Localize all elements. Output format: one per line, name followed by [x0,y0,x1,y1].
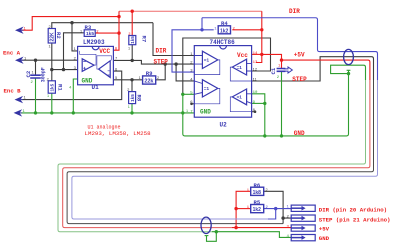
junction dots red [117,10,283,230]
svg-text:22k: 22k [144,79,153,85]
resistor R3 (1k5 horizontal) [84,30,95,37]
svg-text:Vcc: Vcc [237,52,248,59]
wire Enc A to U1 pin2 [22,59,78,61]
svg-text:1k5: 1k5 [50,83,55,91]
svg-text:DIR: DIR [156,48,167,55]
svg-text:2: 2 [49,25,51,29]
wire C1 bottom [281,72,283,136]
wire STEP branch to U2 pin4 [176,64,194,81]
node R7/pin7 [131,59,134,62]
svg-text:1k2: 1k2 [220,28,229,34]
svg-text:1: 1 [49,45,51,49]
node R3.2 joins VCC vertical [117,31,120,34]
node R5 branch [234,207,237,210]
wire R6 pin2 drop [264,191,283,218]
svg-text:=1: =1 [204,86,210,91]
XOR gate C [202,80,217,97]
wire R2 top to DIR corner (net DIR upper run) [52,23,153,29]
extra resistor pin digits [47,46,189,113]
node pin14 junction [260,53,263,56]
svg-text:LM2903: LM2903 [83,39,105,46]
svg-text:1: 1 [24,25,27,30]
svg-text:C1: C1 [270,67,277,74]
wire GND hook at top-right cable marker [331,65,366,80]
wire R8 top drop [131,80,133,92]
svg-text:GND: GND [82,77,93,84]
wire R7 top [131,11,133,35]
wire Enc B to U1 pin6 [22,71,122,100]
svg-text:10: 10 [253,91,258,95]
svg-text:STEP: STEP [292,76,307,83]
junction dots green [34,72,350,234]
svg-text:R6: R6 [254,182,261,189]
node R5.2 / bundle [274,207,277,210]
svg-text:+5V: +5V [294,52,305,59]
svg-text:R4: R4 [221,20,228,27]
cable clamp pin bottom-left [205,235,209,237]
wire R5 pin2 to connector pin1 [264,208,292,210]
svg-text:2: 2 [266,188,268,192]
svg-text:1: 1 [24,55,27,60]
wire U2 pin10 [252,94,265,136]
wire DIR branch down to U2 pin3 [172,30,202,72]
svg-text:U1: U1 [92,84,100,91]
wire U2 pin12 over-the-top loop to pin5 node [183,38,271,94]
wire R9 pin2 riser to STEP [156,64,166,80]
connector J1 pin2 [291,215,315,221]
arrow glyph of C1 [284,67,293,73]
svg-text:STEP: STEP [154,59,169,66]
wire R3 pin1 branch [64,33,85,70]
svg-text:2: 2 [157,76,159,80]
svg-text:R3: R3 [85,24,92,31]
wire C2 bottom [35,78,37,113]
wire node to U1 pin3 [52,69,78,71]
resistor R8 (1k5 vertical) [129,92,136,104]
connector J1 pin3 [291,225,315,231]
node R4.2 joins +5V vertical [260,28,263,31]
node R4.1 / DIR [200,28,203,31]
node arrow net joins VCC vertical [117,15,120,18]
pin number labels U2 left [190,51,193,104]
svg-text:1: 1 [23,108,26,113]
wire R4 pin1 to DIR vertical [202,18,214,30]
wire R1 bottom [51,93,53,113]
node pin5 drop [181,93,184,96]
XOR gate B [232,59,246,75]
svg-text:1: 1 [74,46,77,51]
svg-text:=1: =1 [237,65,243,70]
wire U1 pin7 STEP run to U2 pin2 [113,60,194,64]
svg-text:2: 2 [31,81,34,85]
node pin9 joins pin10 [263,102,266,105]
svg-text:13: 13 [253,61,258,65]
svg-text:2: 2 [127,88,129,92]
resistor R2 (22K vertical) [48,29,56,44]
node EncA/C2 junction [34,59,37,62]
node DIR/pin1 junction [70,21,73,24]
node cable hook bottom-left [215,230,218,233]
svg-text:12: 12 [253,66,258,71]
node C1 branch [280,58,283,61]
resistor R7 (1k5 vertical) [129,36,136,45]
capacitor C1 (with arrow marker) [277,67,293,73]
resistor pin digits [49,25,268,192]
comparator B triangle [99,61,111,78]
svg-text:GND: GND [294,130,305,137]
wire U2 pin11 STEP output loop to connector pin2 [252,57,374,81]
node divider tap [50,68,53,71]
node R6/R5 riser top [235,190,237,192]
node top rail / R7 [131,10,134,13]
resistor R1 (1k5 vertical) [48,81,55,93]
wire U2 pin8 stub [252,111,256,113]
IC U2 74HCT86 [194,46,251,118]
wire riser to R6/R5 [236,191,251,227]
svg-text:LM293, LM358, LM258: LM293, LM358, LM258 [85,130,152,137]
net arrow GND bottom-left [15,111,22,116]
wire U2 pin5 stub [183,93,195,95]
op-amp U1 LM2903 [78,46,114,84]
net arrow Enc A [16,58,23,63]
junction dots black [34,21,285,220]
svg-text:1k5: 1k5 [130,36,135,44]
svg-text:74HCT86: 74HCT86 [210,39,236,46]
svg-text:1: 1 [128,105,130,109]
svg-text:DIR: DIR [289,8,300,15]
XOR gate A [202,51,217,68]
wire branch to R5 pin1 [236,208,251,210]
capacitor C2 (300pF) [30,75,41,78]
svg-text:2: 2 [287,215,290,219]
svg-text:DIR (pin 20 Arduino): DIR (pin 20 Arduino) [319,207,387,214]
gate output routes [194,60,251,112]
node cable hook top-right [347,72,350,75]
svg-text:1: 1 [214,28,217,32]
wire U2 pin9 [252,102,265,104]
net arrow Enc B [16,97,23,102]
resistor R9 (22k horizontal) [143,76,156,85]
wire U2 pin6 stub [191,103,194,105]
unconnected stub blob U2 pin8 [254,110,257,113]
wire R7 bottom drop [131,45,133,61]
svg-text:Enc B: Enc B [4,88,22,95]
svg-text:GND: GND [319,235,330,242]
pin number labels U1 [74,46,118,80]
pin number labels U2 right [253,66,258,112]
node pin10 on lower bus [263,134,266,137]
wire C2 top branch [35,60,37,75]
svg-text:R7: R7 [141,36,148,43]
svg-text:1k5: 1k5 [130,94,135,102]
net arrow top-left (red net) [16,28,23,33]
svg-text:300pF: 300pF [40,67,46,82]
svg-text:VCC: VCC [99,48,110,55]
wire U1 pin5 line [113,79,142,81]
gate =1 labels [204,58,242,100]
svg-text:22K: 22K [50,32,56,42]
svg-text:9: 9 [253,101,256,105]
wire R3 pin2 to VCC node [95,32,119,34]
comparator A triangle [82,59,94,72]
svg-text:GND: GND [200,108,211,115]
wire R4 pin2 to +5V vertical [232,29,261,31]
svg-text:1: 1 [80,30,82,34]
connector J1 pin4 [291,235,315,241]
svg-text:U2: U2 [220,122,228,129]
resistor R4 (1k2 horizontal) [218,26,230,35]
node U1 pin4 on bus [72,111,75,114]
cable clamp pin top-right [347,70,351,73]
wire DIR net top run and right loop to R5 node [202,18,378,80]
wire GND left bus [21,112,195,114]
svg-text:=1: =1 [237,95,243,100]
svg-text:1k5: 1k5 [86,31,94,37]
XOR gate D [232,89,246,105]
wire U2 pin14 +5V [252,53,262,55]
junction dots blue [200,28,277,210]
svg-text:Enc A: Enc A [3,49,21,56]
svg-text:14: 14 [253,52,258,56]
gate input stubs [194,56,251,104]
svg-text:1k8: 1k8 [253,190,262,196]
svg-text:R5: R5 [254,199,261,206]
internal output routes U1 [80,51,96,65]
connector J1 pin1 [291,205,315,211]
wire +5V rail to right loop, around to connector pin3 [262,54,311,60]
cable marker ellipse bottom-left [201,217,211,233]
svg-text:1: 1 [139,76,141,80]
node C1 on lower bus [280,134,283,137]
svg-text:2: 2 [277,76,280,80]
svg-text:R2: R2 [55,32,62,39]
wire GND drop to lower bus [183,74,349,136]
svg-text:+5V: +5V [319,226,330,233]
unconnected stub blob U2 pin6 [190,103,193,106]
node R8 on bus [130,111,133,114]
node C2 on bus [34,111,37,114]
wire VCC vertical to U1 pin8 [113,11,119,50]
svg-text:1: 1 [24,95,27,100]
resistor R6 (1k8 horizontal) [251,187,264,196]
svg-text:2: 2 [47,77,49,81]
wire divider R2-R1 vertical [51,43,53,81]
svg-text:1: 1 [47,94,49,98]
cable marker ellipse top-right [344,49,354,64]
node pin4 branch on STEP [174,62,177,65]
node R1 on bus [50,111,53,114]
wire +5V top rail [119,10,262,12]
wire DIR vertical drop to U2 pin1 [153,23,194,56]
small net-arrow "1" labels [23,25,28,113]
svg-text:R9: R9 [146,70,153,77]
svg-text:4: 4 [69,87,72,91]
node R8/pin5 [130,78,133,81]
svg-text:R1: R1 [56,84,63,91]
svg-text:5: 5 [190,92,193,96]
svg-text:R8: R8 [136,95,143,102]
node drop crosses left bus [181,111,184,114]
node R9 riser on STEP [164,62,167,65]
resistor R5 (1k2 horizontal) [251,205,264,214]
wire top-left arrow net [22,17,120,31]
node R3 branch [62,68,65,71]
svg-text:1: 1 [128,46,130,50]
wire R8 bottom [131,104,133,113]
node connector pin2 junction [281,216,284,219]
svg-text:1: 1 [186,109,188,113]
svg-text:1k2: 1k2 [253,207,262,213]
svg-text:=1: =1 [204,58,210,63]
wire C1 top stub [281,60,283,68]
svg-text:STEP (pin 21 Arduino): STEP (pin 21 Arduino) [319,216,391,223]
wire U1 pin4 GND [73,79,77,113]
wire GND hook at bottom-left cable marker [207,232,217,242]
node riser on red bus [234,226,237,229]
wire U1 pin1 riser [72,23,78,51]
